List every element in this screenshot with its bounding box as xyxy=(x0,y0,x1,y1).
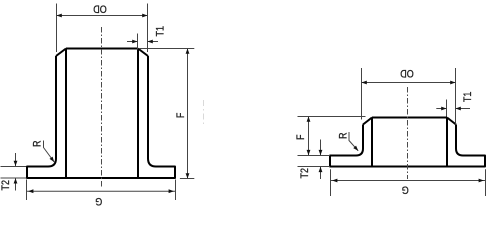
R label xyxy=(32,140,44,147)
R leader xyxy=(44,141,55,163)
weld bevel left xyxy=(56,49,66,57)
F dimension line xyxy=(187,49,189,179)
G label xyxy=(95,195,102,207)
OD label xyxy=(93,2,107,14)
T2 label (right fig) xyxy=(299,168,311,179)
G dimension line xyxy=(27,190,176,192)
G label (right fig) xyxy=(402,183,409,195)
weld bevel right xyxy=(138,49,148,57)
R leader (right fig) xyxy=(349,132,358,151)
G extension line right (right fig) xyxy=(485,169,487,196)
T1 label (right fig) xyxy=(462,91,474,102)
T1 extension line (right fig) xyxy=(446,100,448,117)
T2 extension line bottom (right fig) xyxy=(298,166,331,168)
T2 label xyxy=(0,180,12,191)
stub end body (left figure) xyxy=(27,56,175,178)
OD extension line right (right fig) xyxy=(455,68,457,125)
T1 label xyxy=(155,26,167,37)
T2 extension line bottom xyxy=(1,177,27,179)
svg-text:F: F xyxy=(175,113,187,119)
bore wall right (right fig) xyxy=(446,118,448,167)
svg-text:T2: T2 xyxy=(0,180,12,191)
pipe top face (right) xyxy=(372,117,447,119)
svg-text:F: F xyxy=(295,135,307,141)
F extension line top (right fig) xyxy=(298,116,366,118)
T2 arrow top xyxy=(15,153,17,166)
OD extension line left xyxy=(56,4,58,53)
T1 arrow right (right fig) xyxy=(456,108,471,110)
OD extension line right xyxy=(147,4,149,53)
centerline (right fig) xyxy=(407,87,409,179)
svg-text:R: R xyxy=(32,140,44,147)
ghost centerline xyxy=(203,100,205,127)
T1 arrow right xyxy=(148,41,159,43)
bore wall left xyxy=(65,49,67,179)
F extension line top xyxy=(139,48,194,50)
G extension line right xyxy=(175,180,177,201)
T2 arrow bottom xyxy=(15,178,17,190)
svg-text:T1: T1 xyxy=(462,91,474,102)
G dimension line (right fig) xyxy=(331,180,486,182)
R label (right fig) xyxy=(338,133,350,140)
OD dimension line (right fig) xyxy=(362,82,456,84)
T1 arrow left xyxy=(127,41,138,43)
F extension line bottom xyxy=(180,178,194,180)
stub end body (right figure) xyxy=(330,125,485,167)
bore wall right xyxy=(137,49,139,179)
T2 arrow bottom (right fig) xyxy=(320,167,322,179)
svg-text:OD: OD xyxy=(93,2,107,14)
OD extension line left (right fig) xyxy=(361,68,363,120)
T1 extension line xyxy=(137,34,139,50)
OD label (right fig) xyxy=(400,67,414,79)
weld bevel right (right fig) xyxy=(447,118,456,125)
svg-text:T2: T2 xyxy=(299,168,311,179)
svg-text:G: G xyxy=(95,195,102,207)
T2 arrow top (right fig) xyxy=(320,140,322,156)
bore wall left (right fig) xyxy=(371,118,373,167)
F label xyxy=(175,113,187,119)
F label (right fig) xyxy=(295,135,307,141)
T1 arrow left (right fig) xyxy=(436,108,446,110)
pipe top face xyxy=(66,48,138,50)
weld bevel left (right fig) xyxy=(363,118,372,125)
svg-text:G: G xyxy=(402,183,409,195)
svg-text:OD: OD xyxy=(400,67,414,79)
OD dimension line xyxy=(57,15,148,17)
F/T2 extension line mid (right fig) xyxy=(298,155,331,157)
svg-text:T1: T1 xyxy=(155,26,167,37)
G extension line left xyxy=(26,180,28,201)
F dimension line (right fig) xyxy=(308,117,310,156)
T2 extension line top xyxy=(1,166,27,168)
svg-text:R: R xyxy=(338,133,350,140)
centerline xyxy=(101,27,103,187)
G extension line left (right fig) xyxy=(330,169,332,196)
